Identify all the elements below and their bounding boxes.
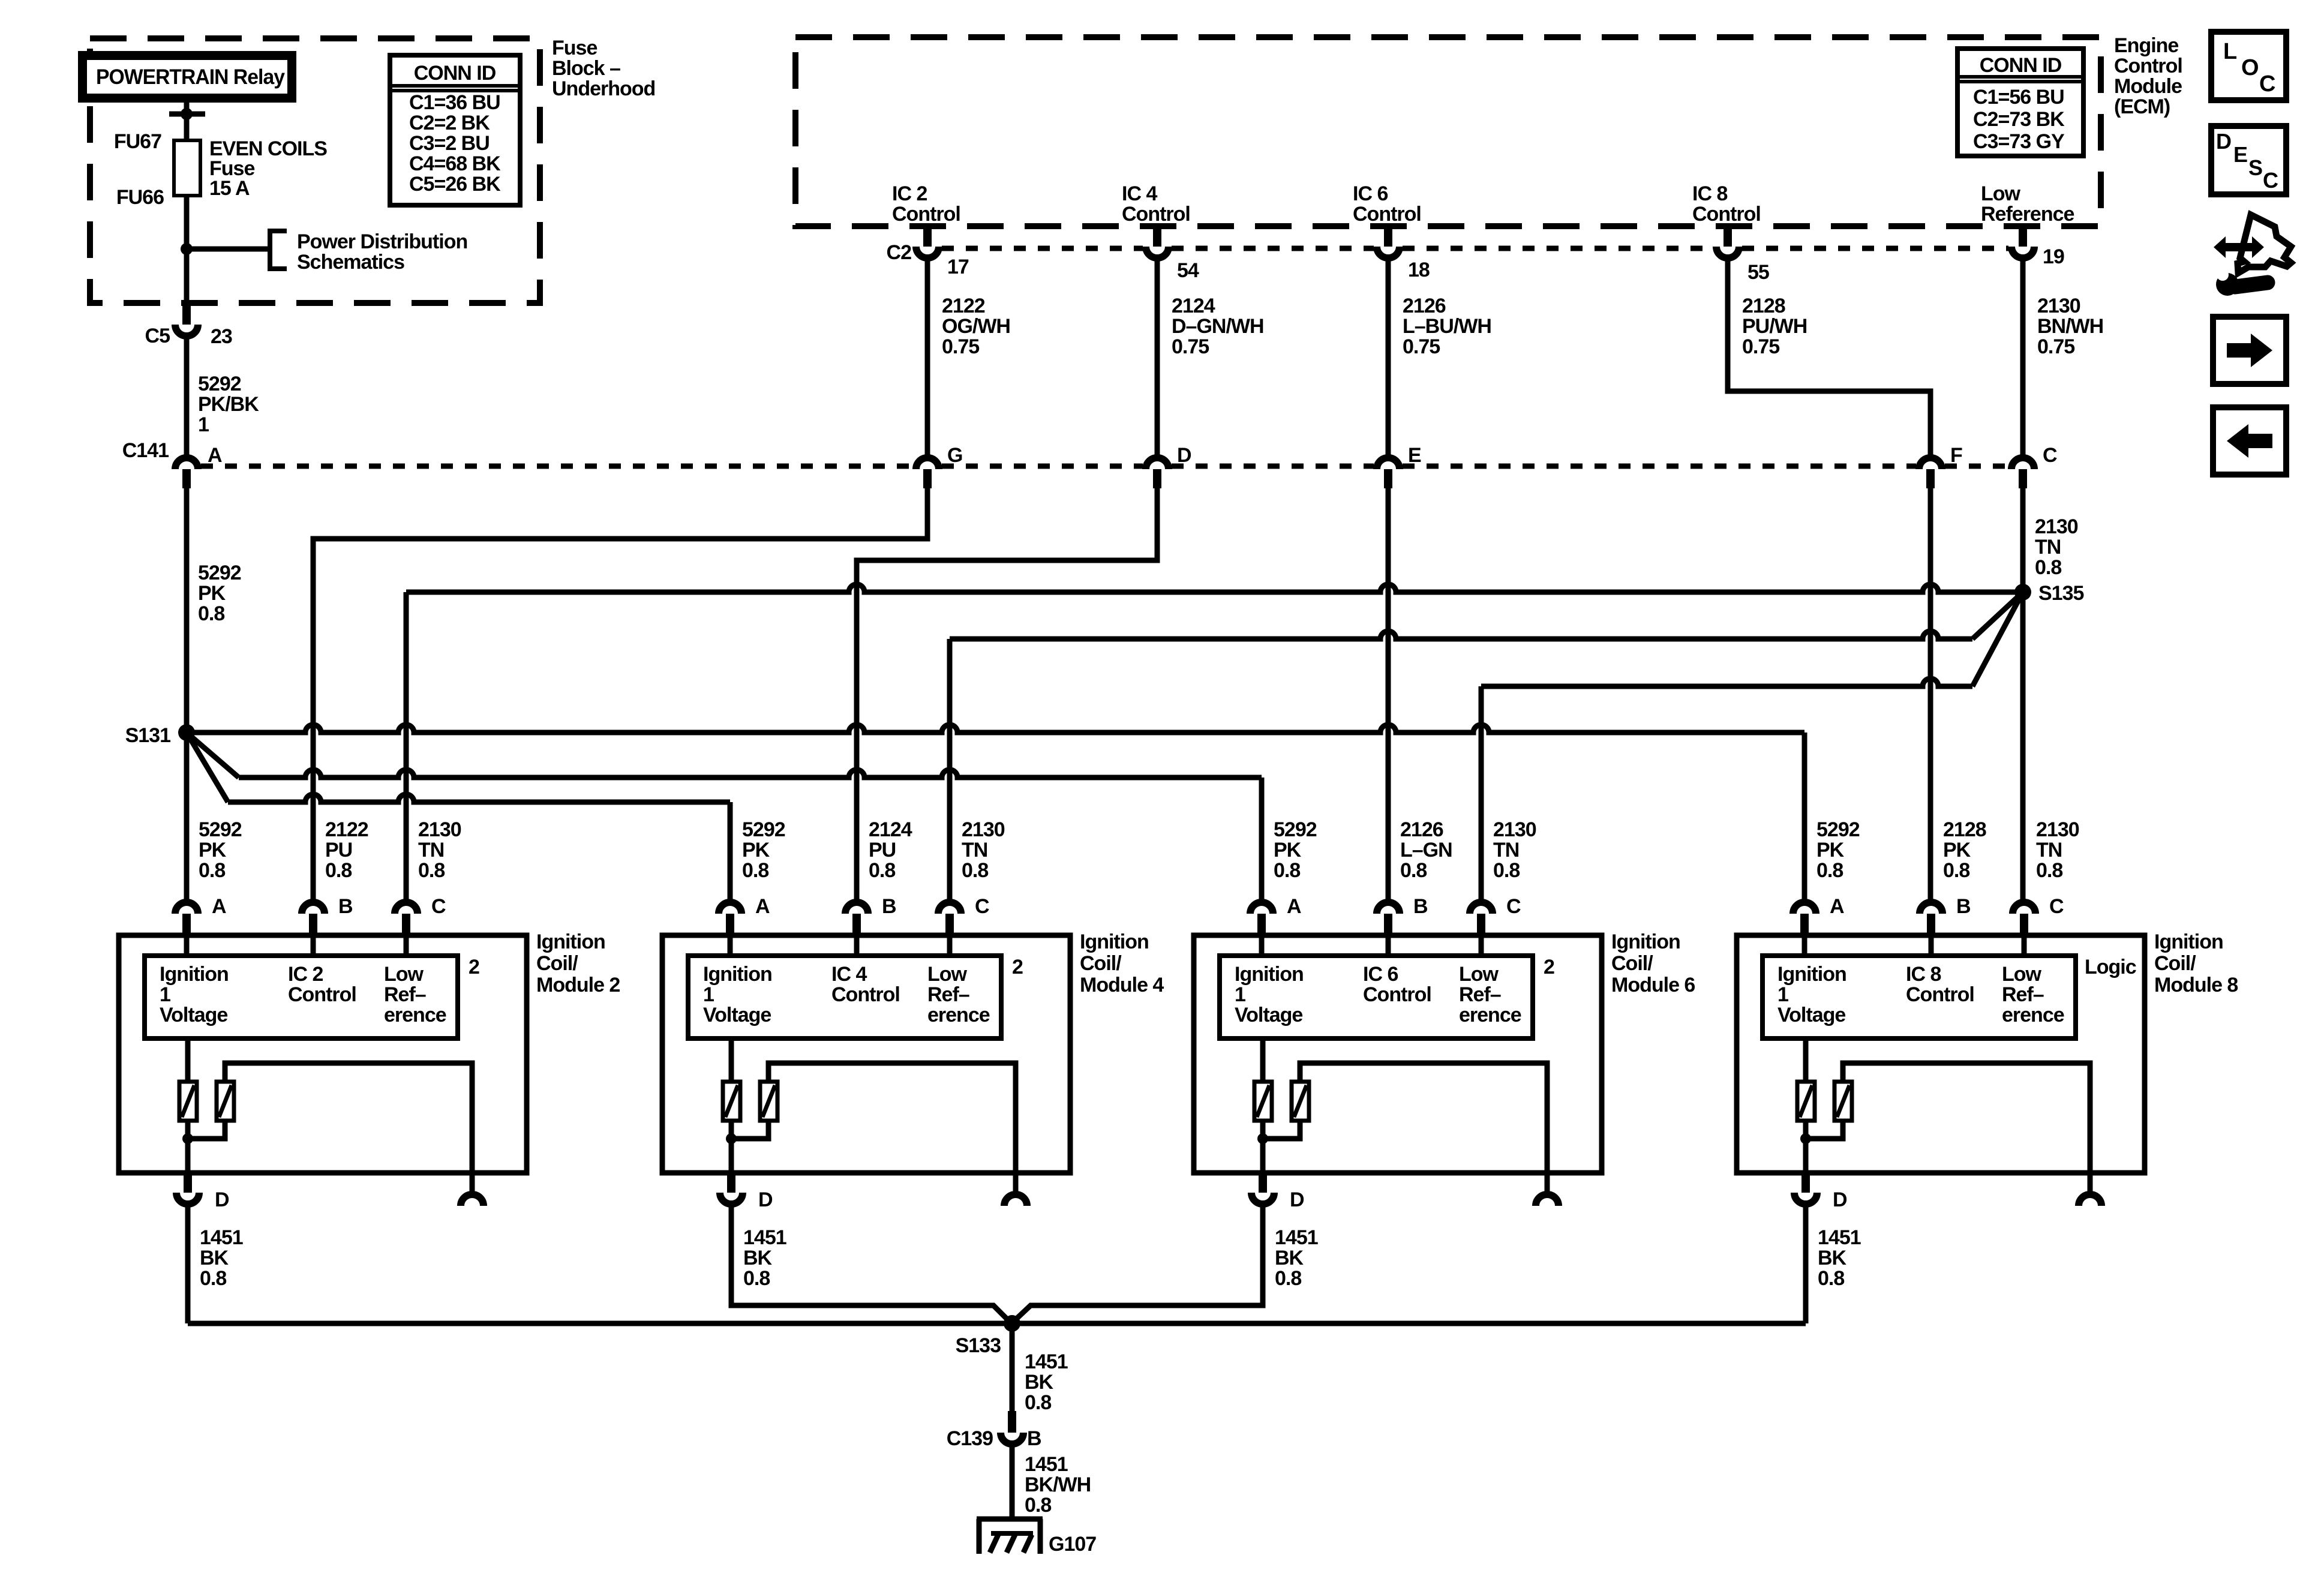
svg-text:Module 4: Module 4 bbox=[1080, 974, 1164, 996]
svg-text:C: C bbox=[2043, 444, 2057, 467]
wire coil bottoms junction module 2 bbox=[182, 1121, 225, 1144]
connector module 6 pin C bbox=[1470, 902, 1493, 935]
svg-text:Ignition: Ignition bbox=[536, 930, 605, 953]
svg-text:B: B bbox=[1956, 895, 1971, 918]
label FU66 bbox=[116, 186, 164, 209]
svg-text:0.75: 0.75 bbox=[1172, 335, 1209, 358]
label 2124 PU 0.8 module 4 pin B bbox=[869, 818, 912, 882]
label 2 module 2 bbox=[469, 956, 479, 978]
svg-text:2: 2 bbox=[1012, 956, 1023, 978]
wire module 8 pin A into block bbox=[1802, 935, 1807, 956]
svg-text:C3=73 GY: C3=73 GY bbox=[1973, 130, 2065, 153]
connector C139 pin B bbox=[1001, 1411, 1023, 1444]
svg-text:C3=2 BU: C3=2 BU bbox=[409, 132, 490, 155]
svg-text:POWERTRAIN Relay: POWERTRAIN Relay bbox=[96, 65, 285, 89]
engine control module dashed box bbox=[795, 37, 2101, 226]
wire 5292 S131 to module4 A bbox=[187, 733, 730, 899]
svg-text:5292: 5292 bbox=[1816, 818, 1860, 841]
svg-text:0.8: 0.8 bbox=[1274, 859, 1300, 882]
cavity letter E bbox=[1408, 444, 1421, 467]
wire module 8 primary feed bbox=[1803, 1038, 1809, 1082]
wire module 8 pin B into block bbox=[1929, 935, 1934, 956]
svg-text:Engine: Engine bbox=[2114, 34, 2178, 57]
connector C141 cavity G bbox=[916, 458, 939, 488]
svg-text:5292: 5292 bbox=[742, 818, 785, 841]
svg-text:D–GN/WH: D–GN/WH bbox=[1172, 315, 1264, 338]
label 2130 TN 0.8 module 2 pin C bbox=[418, 818, 461, 882]
wire 1451 module8 D to ground bus bbox=[1803, 1207, 1809, 1323]
svg-text:C139: C139 bbox=[947, 1427, 993, 1450]
pin number 19 bbox=[2043, 245, 2064, 268]
svg-text:0.8: 0.8 bbox=[743, 1267, 770, 1290]
svg-text:Control: Control bbox=[1692, 203, 1761, 226]
svg-text:BK/WH: BK/WH bbox=[1025, 1473, 1091, 1496]
svg-text:PU: PU bbox=[869, 839, 896, 861]
svg-text:C1=56 BU: C1=56 BU bbox=[1973, 86, 2064, 109]
svg-text:IC 4: IC 4 bbox=[1122, 182, 1157, 205]
svg-text:Module 8: Module 8 bbox=[2154, 974, 2238, 996]
label S133 bbox=[956, 1334, 1001, 1357]
svg-text:C: C bbox=[975, 895, 989, 918]
svg-text:TN: TN bbox=[1493, 839, 1519, 861]
wire module 4 pin B into block bbox=[854, 935, 860, 956]
svg-text:0.8: 0.8 bbox=[200, 1267, 226, 1290]
svg-text:5292: 5292 bbox=[198, 562, 241, 584]
svg-text:erence: erence bbox=[2002, 1004, 2064, 1026]
connector module 2 pin B bbox=[302, 902, 325, 935]
label EVEN COILS Fuse 15 A bbox=[209, 137, 327, 200]
pin letter D module 4 bbox=[758, 1188, 773, 1211]
label 2128 PU/WH 0.75 bbox=[1742, 295, 1807, 358]
svg-text:Ignition: Ignition bbox=[1080, 930, 1149, 953]
svg-text:A: A bbox=[212, 895, 226, 918]
label Low Reference module 2 bbox=[384, 963, 446, 1026]
connector module 6 pin B bbox=[1377, 902, 1400, 935]
wire 1451 module4 D to S133 bbox=[731, 1207, 1011, 1323]
svg-text:Ref–: Ref– bbox=[1459, 983, 1501, 1006]
wire module 2 to pin D bbox=[185, 1139, 191, 1173]
svg-text:18: 18 bbox=[1408, 259, 1430, 281]
conn id table fuse block bbox=[390, 55, 520, 205]
label 23 bbox=[211, 325, 232, 348]
svg-text:BK: BK bbox=[1818, 1247, 1847, 1269]
wire module 4 pin C into block bbox=[947, 935, 953, 956]
pin number 55 bbox=[1747, 261, 1769, 284]
svg-text:PK/BK: PK/BK bbox=[198, 393, 259, 416]
label 5292 PK 0.8 module 4 pin A bbox=[742, 818, 785, 882]
svg-text:Low: Low bbox=[1981, 182, 2021, 205]
svg-text:A: A bbox=[755, 895, 770, 918]
svg-text:IC 2: IC 2 bbox=[288, 963, 323, 986]
svg-text:Ignition: Ignition bbox=[160, 963, 229, 986]
ecm connector C2 pin 17 bbox=[916, 227, 939, 258]
pin letter A module 2 bbox=[212, 895, 226, 918]
ecm connector C2 pin 19 bbox=[2011, 227, 2034, 258]
svg-text:1: 1 bbox=[1235, 983, 1245, 1006]
svg-text:2122: 2122 bbox=[325, 818, 368, 841]
wire coil secondary top module 2 bbox=[225, 1063, 472, 1173]
fuse block - underhood dashed box bbox=[90, 38, 540, 303]
connector module 6 pin D bbox=[1251, 1173, 1274, 1204]
wire 1451 ground bus bbox=[188, 1321, 1806, 1326]
label 2130 TN 0.8 module 8 pin C bbox=[2036, 818, 2079, 882]
wire module 4 to pin D bbox=[729, 1139, 734, 1173]
svg-text:C: C bbox=[2263, 168, 2278, 193]
wire coil secondary top module 4 bbox=[768, 1063, 1016, 1173]
svg-text:O: O bbox=[2241, 55, 2259, 80]
pin letter D module 8 bbox=[1833, 1188, 1847, 1211]
wire 2122 ecm pin17 to C141 G bbox=[925, 261, 930, 455]
svg-text:B: B bbox=[882, 895, 896, 918]
label IC 2 Control module 2 bbox=[288, 963, 356, 1006]
svg-text:BK: BK bbox=[200, 1247, 229, 1269]
svg-text:1: 1 bbox=[198, 413, 209, 436]
svg-text:2126: 2126 bbox=[1400, 818, 1443, 841]
wire fuse to C5 bbox=[181, 196, 193, 303]
wire coil secondary top module 8 bbox=[1843, 1063, 2090, 1173]
icon DESC box bbox=[2211, 126, 2286, 194]
label 2124 D-GN/WH 0.75 bbox=[1172, 295, 1264, 358]
connector C141 dotted line bbox=[201, 464, 2008, 469]
connector module 8 pin D bbox=[1794, 1173, 1817, 1204]
label Ignition 1 Voltage module 2 bbox=[160, 963, 229, 1026]
icon LOC box bbox=[2211, 32, 2286, 100]
svg-text:0.8: 0.8 bbox=[2036, 859, 2062, 882]
wire coil bottoms junction module 6 bbox=[1257, 1121, 1300, 1144]
wire module 2 pin A into block bbox=[184, 935, 190, 956]
cavity letter A bbox=[208, 444, 222, 467]
wire 2124 jog to module4 B bbox=[857, 488, 1157, 899]
wire 2130 C141 C to S135 bbox=[2020, 488, 2026, 592]
svg-text:Voltage: Voltage bbox=[1777, 1004, 1845, 1026]
svg-text:L–GN: L–GN bbox=[1400, 839, 1452, 861]
svg-text:1451: 1451 bbox=[200, 1226, 243, 1249]
pin letter C module 6 bbox=[1506, 895, 1521, 918]
svg-text:1451: 1451 bbox=[743, 1226, 786, 1249]
svg-text:0.8: 0.8 bbox=[2035, 556, 2061, 579]
svg-text:D: D bbox=[758, 1188, 773, 1211]
svg-text:Schematics: Schematics bbox=[297, 251, 404, 274]
svg-text:S: S bbox=[2248, 155, 2262, 180]
svg-text:15 A: 15 A bbox=[209, 177, 250, 200]
svg-text:C: C bbox=[431, 895, 446, 918]
pin letter A module 4 bbox=[755, 895, 770, 918]
svg-text:0.8: 0.8 bbox=[1816, 859, 1843, 882]
wire to power distribution reference bbox=[187, 247, 270, 252]
wire module 8 pin C into block bbox=[2022, 935, 2027, 956]
svg-text:Ignition: Ignition bbox=[1777, 963, 1846, 986]
svg-text:1451: 1451 bbox=[1275, 1226, 1318, 1249]
wire 5292 S131 to module2 A bbox=[184, 733, 190, 899]
label Low Reference bbox=[1981, 182, 2074, 226]
svg-text:5292: 5292 bbox=[199, 818, 242, 841]
label C139 bbox=[947, 1427, 993, 1450]
pin letter C module 4 bbox=[975, 895, 989, 918]
svg-text:2: 2 bbox=[1544, 956, 1554, 978]
ecm connector C2 pin 55 bbox=[1716, 227, 1739, 258]
svg-text:IC 8: IC 8 bbox=[1906, 963, 1941, 986]
svg-text:F: F bbox=[1950, 444, 1962, 467]
label 5292 PK 0.8 module 2 pin A bbox=[199, 818, 242, 882]
svg-text:0.8: 0.8 bbox=[1493, 859, 1520, 882]
svg-text:1: 1 bbox=[160, 983, 170, 1006]
svg-text:Control: Control bbox=[1906, 983, 1974, 1006]
coil secondary module 4 bbox=[760, 1082, 777, 1121]
ecm connector C2 pin 54 bbox=[1146, 227, 1169, 258]
wire 1451 module6 D to S133 bbox=[1011, 1207, 1263, 1323]
label IC 6 Control bbox=[1353, 182, 1421, 226]
svg-text:Ref–: Ref– bbox=[384, 983, 426, 1006]
label Ignition Coil Module 4 bbox=[1080, 930, 1164, 996]
wire module 6 pin C into block bbox=[1479, 935, 1484, 956]
label G107 bbox=[1049, 1533, 1096, 1556]
svg-text:0.8: 0.8 bbox=[1025, 1494, 1051, 1517]
svg-text:B: B bbox=[1027, 1427, 1041, 1450]
label C141 bbox=[122, 439, 169, 462]
wire 1451 module2 D to ground bus bbox=[185, 1207, 191, 1323]
label Engine Control Module (ECM) bbox=[2114, 34, 2182, 118]
wire 2122 jog to module2 B bbox=[313, 488, 927, 899]
svg-text:B: B bbox=[338, 895, 353, 918]
svg-text:2130: 2130 bbox=[962, 818, 1005, 841]
label S131 bbox=[125, 724, 170, 747]
svg-text:2124: 2124 bbox=[1172, 295, 1215, 317]
svg-text:19: 19 bbox=[2043, 245, 2064, 268]
coil secondary module 2 bbox=[217, 1082, 234, 1121]
svg-text:FU67: FU67 bbox=[114, 130, 161, 153]
svg-text:0.8: 0.8 bbox=[962, 859, 988, 882]
label 2130 BN/WH 0.75 bbox=[2037, 295, 2103, 358]
svg-text:2130: 2130 bbox=[2035, 515, 2078, 538]
pin letter B module 4 bbox=[882, 895, 896, 918]
svg-text:0.75: 0.75 bbox=[942, 335, 979, 358]
connector module 4 pin B bbox=[845, 902, 868, 935]
label IC 4 Control module 4 bbox=[831, 963, 900, 1006]
svg-text:0.8: 0.8 bbox=[869, 859, 895, 882]
svg-text:BN/WH: BN/WH bbox=[2037, 315, 2103, 338]
label Power Distribution Schematics bbox=[297, 230, 467, 274]
connector module 4 pin A bbox=[719, 902, 741, 935]
svg-text:0.8: 0.8 bbox=[198, 602, 224, 625]
svg-text:PK: PK bbox=[199, 839, 227, 861]
label Fuse Block - Underhood bbox=[552, 37, 655, 100]
svg-text:2130: 2130 bbox=[2036, 818, 2079, 841]
connector module 2 secondary unmated bbox=[461, 1173, 484, 1206]
label 5292 PK 0.8 module 8 pin A bbox=[1816, 818, 1860, 882]
connector C5 pin 23 bbox=[175, 303, 198, 336]
wire 2126 to module6 B bbox=[1386, 488, 1391, 899]
svg-text:1451: 1451 bbox=[1025, 1453, 1068, 1476]
wire 2128 C141 F to module8 B bbox=[1928, 488, 1933, 899]
wire module 6 to pin D bbox=[1260, 1139, 1266, 1173]
splice S135 bbox=[2014, 584, 2031, 601]
svg-text:23: 23 bbox=[211, 325, 232, 348]
label IC 6 Control module 6 bbox=[1363, 963, 1431, 1006]
svg-text:C2: C2 bbox=[887, 241, 912, 264]
relay POWERTRAIN Relay bbox=[78, 51, 296, 103]
svg-text:2122: 2122 bbox=[942, 295, 985, 317]
svg-text:D: D bbox=[1177, 444, 1191, 467]
svg-text:PK: PK bbox=[1816, 839, 1845, 861]
cavity letter C bbox=[2043, 444, 2057, 467]
svg-text:Reference: Reference bbox=[1981, 203, 2074, 226]
relay terminal bar bbox=[169, 108, 205, 120]
svg-text:54: 54 bbox=[1177, 259, 1199, 282]
svg-text:D: D bbox=[215, 1188, 229, 1211]
svg-text:IC 4: IC 4 bbox=[831, 963, 867, 986]
svg-text:D: D bbox=[1290, 1188, 1304, 1211]
pin number 17 bbox=[947, 256, 969, 278]
label 1451 BK 0.8 module 6 bbox=[1275, 1226, 1318, 1290]
wire coil bottoms junction module 4 bbox=[726, 1121, 768, 1144]
connector module 4 pin C bbox=[938, 902, 961, 935]
svg-text:2130: 2130 bbox=[2037, 295, 2080, 317]
svg-text:0.75: 0.75 bbox=[1742, 335, 1779, 358]
label Low Reference module 4 bbox=[927, 963, 990, 1026]
svg-text:2130: 2130 bbox=[418, 818, 461, 841]
svg-text:L: L bbox=[2223, 39, 2237, 64]
pin letter D module 2 bbox=[215, 1188, 229, 1211]
svg-text:Block –: Block – bbox=[552, 57, 620, 80]
label 1451 BK 0.8 module 2 bbox=[200, 1226, 243, 1290]
wire module 6 primary feed bbox=[1260, 1038, 1266, 1082]
wire 2124 ecm pin54 to C141 D bbox=[1155, 261, 1160, 455]
svg-text:2130: 2130 bbox=[1493, 818, 1536, 841]
wire 1451 C139 to G107 bbox=[1010, 1447, 1015, 1519]
svg-text:2: 2 bbox=[469, 956, 479, 978]
label 1451 BK 0.8 below S133 bbox=[1025, 1350, 1068, 1414]
label B C139 bbox=[1027, 1427, 1041, 1450]
wire 5292 S131 to module6 A bbox=[187, 733, 1262, 899]
label IC 4 Control bbox=[1122, 182, 1190, 226]
svg-text:0.8: 0.8 bbox=[742, 859, 768, 882]
svg-text:1451: 1451 bbox=[1025, 1350, 1068, 1373]
label 1451 BK 0.8 module 8 bbox=[1818, 1226, 1861, 1290]
svg-text:Coil/: Coil/ bbox=[2154, 952, 2196, 975]
svg-text:Voltage: Voltage bbox=[1235, 1004, 1302, 1026]
connector C141 cavity C bbox=[2011, 458, 2034, 488]
coil primary module 8 bbox=[1797, 1082, 1815, 1121]
label 2122 PU 0.8 module 2 pin B bbox=[325, 818, 368, 882]
pin letter A module 8 bbox=[1830, 895, 1844, 918]
svg-text:erence: erence bbox=[384, 1004, 446, 1026]
pin letter D module 6 bbox=[1290, 1188, 1304, 1211]
svg-text:C1=36 BU: C1=36 BU bbox=[409, 91, 500, 114]
coil primary module 6 bbox=[1254, 1082, 1272, 1121]
wire low reference bus to module2 C bbox=[406, 584, 2023, 899]
cavity letter D bbox=[1177, 444, 1191, 467]
pin letter C module 2 bbox=[431, 895, 446, 918]
svg-text:C4=68 BK: C4=68 BK bbox=[409, 152, 501, 175]
label IC 2 Control bbox=[892, 182, 960, 226]
svg-text:Voltage: Voltage bbox=[703, 1004, 771, 1026]
svg-text:Low: Low bbox=[384, 963, 424, 986]
svg-text:C: C bbox=[2049, 895, 2064, 918]
svg-text:B: B bbox=[1413, 895, 1428, 918]
pin letter C module 8 bbox=[2049, 895, 2064, 918]
svg-text:Coil/: Coil/ bbox=[1080, 952, 1122, 975]
wire 1451 S133 to C139 bbox=[1010, 1323, 1015, 1411]
icon arrow right box bbox=[2213, 317, 2286, 384]
svg-text:0.8: 0.8 bbox=[1400, 859, 1427, 882]
svg-text:erence: erence bbox=[927, 1004, 990, 1026]
label FU67 bbox=[114, 130, 161, 153]
label 2130 TN 0.8 above S135 bbox=[2035, 515, 2078, 579]
ignition coil module 6 inner box bbox=[1220, 956, 1533, 1038]
svg-text:E: E bbox=[2233, 142, 2247, 167]
wire 5292 C141 A to S131 bbox=[184, 488, 190, 733]
connector module 6 pin A bbox=[1250, 902, 1273, 935]
svg-text:S133: S133 bbox=[956, 1334, 1001, 1357]
svg-text:Ref–: Ref– bbox=[2002, 983, 2044, 1006]
svg-text:2124: 2124 bbox=[869, 818, 912, 841]
label Ignition Coil Module 8 bbox=[2154, 930, 2238, 996]
svg-text:1: 1 bbox=[1777, 983, 1788, 1006]
svg-text:Ignition: Ignition bbox=[2154, 930, 2223, 953]
ignition coil module 4 inner box bbox=[688, 956, 1001, 1038]
svg-text:PK: PK bbox=[198, 582, 226, 605]
fuse FU67/FU66 EVEN COILS 15 A bbox=[174, 140, 200, 196]
svg-text:D: D bbox=[2216, 129, 2231, 154]
svg-text:Logic: Logic bbox=[2085, 956, 2136, 978]
cavity letter G bbox=[947, 444, 962, 467]
svg-text:L–BU/WH: L–BU/WH bbox=[1403, 315, 1491, 338]
label Ignition 1 Voltage module 6 bbox=[1235, 963, 1304, 1026]
label S135 bbox=[2038, 582, 2083, 605]
connector module 8 pin B bbox=[1920, 902, 1942, 935]
wire module 4 primary feed bbox=[729, 1038, 734, 1082]
label C2 bbox=[887, 241, 912, 264]
wire coil secondary top module 6 bbox=[1300, 1063, 1547, 1173]
wire module 6 pin B into block bbox=[1386, 935, 1391, 956]
svg-text:BK: BK bbox=[1275, 1247, 1304, 1269]
connector module 2 pin D bbox=[176, 1173, 199, 1204]
off-page bracket power distribution bbox=[270, 231, 287, 269]
svg-text:CONN ID: CONN ID bbox=[414, 62, 496, 85]
label 2122 OG/WH 0.75 bbox=[942, 295, 1010, 358]
ignition coil module 8 outer box bbox=[1737, 935, 2145, 1173]
svg-text:S135: S135 bbox=[2038, 582, 2083, 605]
connector module 8 pin C bbox=[2013, 902, 2035, 935]
svg-text:PU: PU bbox=[325, 839, 352, 861]
svg-text:Ref–: Ref– bbox=[927, 983, 969, 1006]
label Low Reference module 8 bbox=[2002, 963, 2064, 1026]
svg-text:PU/WH: PU/WH bbox=[1742, 315, 1807, 338]
connector module 6 secondary unmated bbox=[1536, 1173, 1559, 1206]
wire module 2 primary feed bbox=[185, 1038, 191, 1082]
svg-text:0.8: 0.8 bbox=[325, 859, 352, 882]
svg-text:BK: BK bbox=[743, 1247, 773, 1269]
svg-text:2126: 2126 bbox=[1403, 295, 1446, 317]
svg-text:E: E bbox=[1408, 444, 1421, 467]
connector C141 cavity F bbox=[1919, 458, 1942, 488]
svg-text:Control: Control bbox=[2114, 55, 2182, 77]
svg-text:Module 2: Module 2 bbox=[536, 974, 620, 996]
svg-text:TN: TN bbox=[418, 839, 444, 861]
icon adjust hand and wrench bbox=[2214, 215, 2291, 296]
connector module 4 secondary unmated bbox=[1004, 1173, 1027, 1206]
pin number 54 bbox=[1177, 259, 1199, 282]
svg-text:0.8: 0.8 bbox=[199, 859, 225, 882]
svg-text:0.8: 0.8 bbox=[1818, 1267, 1844, 1290]
connector module 2 pin C bbox=[395, 902, 418, 935]
wire module 2 pin B into block bbox=[311, 935, 316, 956]
svg-text:IC 8: IC 8 bbox=[1692, 182, 1727, 205]
wire 5292 C5 to C141 bbox=[184, 339, 190, 455]
svg-text:Fuse: Fuse bbox=[552, 37, 597, 59]
pin number 18 bbox=[1408, 259, 1430, 281]
svg-text:Ignition: Ignition bbox=[703, 963, 772, 986]
